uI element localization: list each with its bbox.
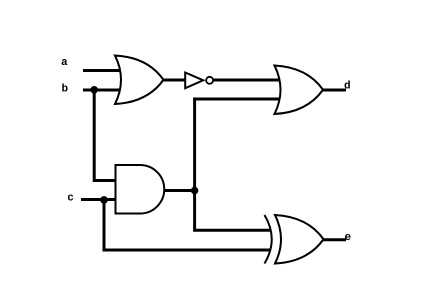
wire input b (83, 89, 122, 92)
wire c branch down to XOR lower input (104, 200, 270, 251)
wire AND output (163, 189, 196, 192)
junction dot on b (90, 86, 98, 94)
wire OR1 output to NOT input (162, 79, 186, 82)
svg-text:b: b (62, 84, 69, 96)
svg-text:e: e (345, 232, 352, 244)
wire AND junction down to XOR top input (195, 191, 271, 231)
wire AND junction up to OR2 lower input (195, 99, 283, 191)
wire NOT output to OR2 top input (213, 79, 283, 82)
wire input a (83, 69, 122, 72)
XOR gate G4 body (output e) (275, 215, 324, 264)
AND gate G2 (inputs b,c) (116, 165, 165, 214)
wire OR2 output d (322, 89, 346, 92)
wire b branch down to AND gate (94, 90, 118, 181)
OR gate G3 (output d) (275, 66, 324, 115)
junction dot on c (100, 196, 108, 204)
OR gate G1 (inputs a,b) (115, 56, 164, 105)
wire input c (81, 198, 118, 201)
svg-text:a: a (61, 57, 68, 69)
wire XOR output e (322, 238, 346, 241)
svg-text:d: d (344, 80, 351, 92)
junction dot on AND output (191, 187, 199, 195)
NOT gate (inverter) (185, 73, 213, 89)
XOR gate extra input arc (265, 215, 272, 264)
svg-text:c: c (67, 193, 74, 205)
